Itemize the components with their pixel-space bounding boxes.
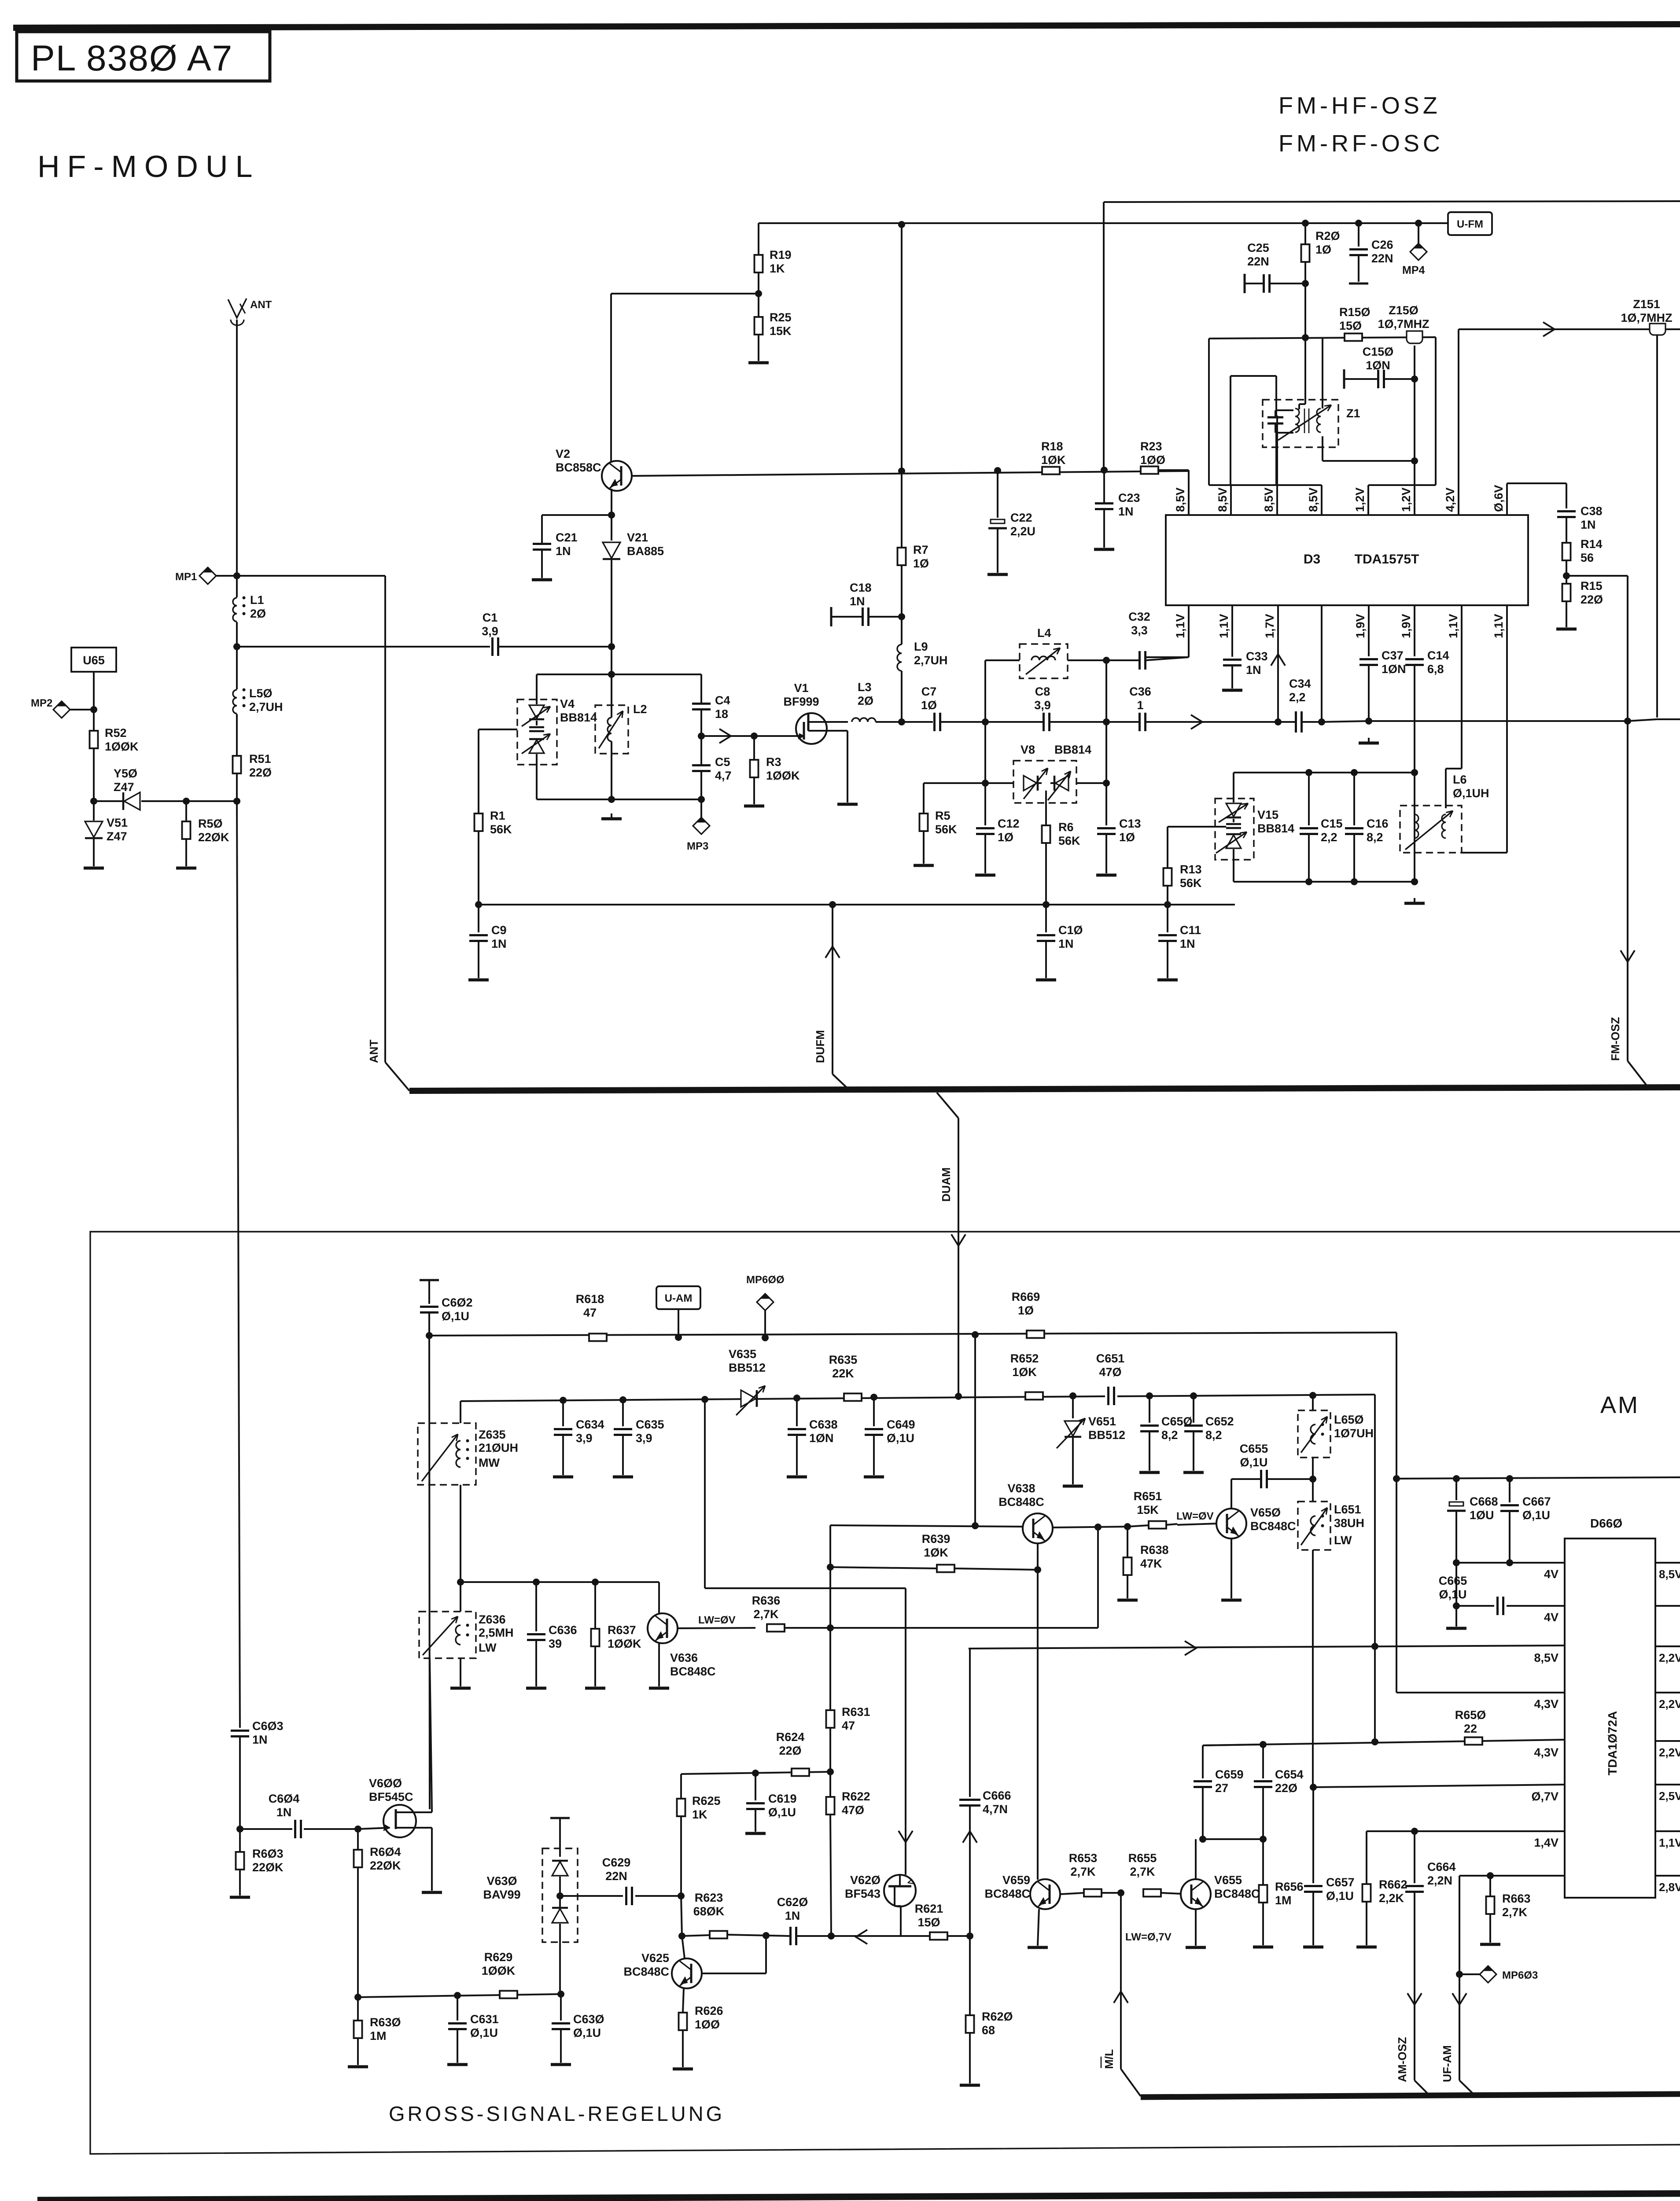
svg-text:C635: C635	[636, 1418, 664, 1431]
svg-text:1ØØ: 1ØØ	[1140, 453, 1165, 467]
0,7V pin line	[1313, 1785, 1565, 1787]
capacitor C635 3,9	[613, 1396, 664, 1477]
node MP600/rail	[762, 1334, 769, 1341]
capacitor C657 0,1U	[1303, 1787, 1355, 1947]
svg-text:R23: R23	[1140, 440, 1162, 453]
svg-text:1,1V: 1,1V	[1447, 614, 1460, 638]
wire V638 collector	[1037, 1543, 1039, 1570]
arrow to mixer gate	[719, 729, 731, 743]
node C602/rail	[426, 1332, 433, 1339]
ground C665	[1455, 1606, 1457, 1627]
svg-text:V15: V15	[1257, 808, 1278, 821]
svg-text:1,1V: 1,1V	[1659, 1836, 1680, 1849]
node Z1 secondary bottom	[1411, 457, 1418, 464]
svg-text:C4: C4	[715, 694, 730, 707]
svg-text:1,2V: 1,2V	[1400, 487, 1413, 512]
node C1/V21 column	[608, 643, 615, 650]
resistor R625 1K	[677, 1774, 721, 1896]
label FM-RF-OSC	[1278, 130, 1444, 157]
svg-text:FM-RF-OSC: FM-RF-OSC	[1278, 130, 1444, 157]
transistor V650 BC848C	[1177, 1479, 1296, 1538]
svg-text:U-AM: U-AM	[665, 1292, 693, 1304]
svg-text:68: 68	[982, 2024, 995, 2037]
svg-text:R631: R631	[842, 1705, 870, 1719]
svg-text:Ø,1U: Ø,1U	[887, 1432, 914, 1445]
wire up to L4 line	[984, 660, 986, 722]
node collector line / R7 column	[898, 467, 905, 475]
svg-text:2,7K: 2,7K	[1130, 1865, 1155, 1878]
wire oscillator box top edge	[1209, 337, 1436, 339]
svg-text:1Ø,7MHZ: 1Ø,7MHZ	[1378, 317, 1429, 331]
svg-text:R15: R15	[1581, 579, 1603, 593]
svg-text:1,1V: 1,1V	[1174, 614, 1187, 638]
AM supply rail	[429, 1332, 1396, 1336]
svg-text:15K: 15K	[770, 324, 792, 338]
svg-text:C11: C11	[1180, 924, 1201, 937]
svg-text:L651: L651	[1334, 1503, 1361, 1516]
svg-text:Z47: Z47	[114, 780, 134, 794]
svg-text:Ø,1U: Ø,1U	[1439, 1588, 1466, 1601]
wire V638 base line	[830, 1525, 1023, 1527]
wire ANT feed down to FM bus	[367, 576, 409, 1091]
svg-text:2,7K: 2,7K	[753, 1608, 779, 1621]
capacitor C655 0,1U	[1231, 1442, 1313, 1488]
svg-text:1N: 1N	[1058, 937, 1074, 950]
svg-text:8,5V: 8,5V	[1174, 487, 1187, 512]
svg-text:C665: C665	[1439, 1574, 1467, 1587]
svg-text:V655: V655	[1214, 1873, 1242, 1887]
svg-text:BC848C: BC848C	[623, 1965, 669, 1978]
svg-text:1ØK: 1ØK	[1041, 453, 1066, 467]
svg-text:1ØØK: 1ØØK	[482, 1964, 516, 1977]
svg-text:UF-AM: UF-AM	[1441, 2045, 1454, 2082]
node R669 drop / base	[972, 1522, 979, 1529]
svg-text:8,5V: 8,5V	[1534, 1651, 1558, 1664]
svg-text:Z47: Z47	[107, 830, 127, 843]
svg-text:Z1: Z1	[1346, 407, 1360, 420]
IC D660 TDA1072A	[1565, 1516, 1655, 1898]
svg-text:R637: R637	[608, 1623, 636, 1637]
svg-text:C619: C619	[768, 1792, 797, 1805]
svg-text:22N: 22N	[1371, 252, 1393, 265]
svg-text:R639: R639	[922, 1532, 951, 1546]
svg-text:C667: C667	[1522, 1495, 1551, 1508]
diode V21 BA885	[603, 515, 664, 647]
node C664	[1411, 1828, 1418, 1835]
node R651/R638	[1124, 1523, 1131, 1530]
svg-text:MP6ØØ: MP6ØØ	[746, 1274, 785, 1286]
node R653/R655/M-L	[1117, 1889, 1124, 1896]
svg-text:22: 22	[1464, 1722, 1477, 1735]
inductor L9 2,7UH	[897, 617, 948, 722]
svg-text:C25: C25	[1247, 241, 1269, 254]
wire V1 source to ground	[827, 730, 847, 732]
ground Z636	[460, 1658, 461, 1686]
wire R625 to collector node	[681, 1896, 682, 1936]
node V630 mid / C629	[556, 1892, 564, 1899]
transistor V2 BC858C	[556, 447, 636, 491]
svg-text:21ØUH: 21ØUH	[479, 1441, 518, 1454]
coil L651 38UH LW (dashed box)	[1298, 1502, 1364, 1550]
svg-text:R1: R1	[490, 809, 505, 822]
svg-text:BB512: BB512	[729, 1361, 766, 1374]
label FM-HF-OSZ	[1278, 92, 1441, 119]
ground V636 emitter	[658, 1643, 660, 1686]
inductor L4 (dashed box)	[985, 626, 1106, 678]
wire rail corner down right side	[1396, 1332, 1397, 1479]
svg-text:BB814: BB814	[1257, 822, 1294, 835]
node R1/C9	[475, 901, 482, 908]
svg-text:C1Ø: C1Ø	[1058, 924, 1083, 937]
svg-text:LW=ØV: LW=ØV	[1176, 1510, 1214, 1522]
svg-text:C654: C654	[1275, 1768, 1304, 1781]
svg-text:C12: C12	[998, 817, 1020, 830]
node V620 feed	[701, 1396, 708, 1403]
capacitor C38 1N	[1557, 504, 1603, 542]
filter Z151 10,7MHZ	[1621, 298, 1672, 335]
svg-text:V21: V21	[627, 531, 648, 544]
resistor R669 10	[1012, 1290, 1044, 1338]
svg-text:V62Ø: V62Ø	[850, 1873, 881, 1887]
node rail/R7 column	[898, 221, 905, 228]
svg-text:AM-OSZ: AM-OSZ	[1396, 2037, 1409, 2082]
svg-text:V2: V2	[556, 447, 570, 460]
svg-text:22Ø: 22Ø	[779, 1744, 801, 1757]
wire DUAM from bus	[937, 1093, 965, 1400]
svg-text:R15Ø: R15Ø	[1339, 305, 1371, 319]
svg-text:BB814: BB814	[1054, 743, 1091, 756]
svg-text:1ØN: 1ØN	[1366, 359, 1390, 372]
inductor L50 2,7UH	[233, 647, 283, 755]
node Y50/R50	[183, 798, 190, 805]
svg-text:15Ø: 15Ø	[917, 1916, 940, 1929]
wire V2 emitter down	[611, 489, 612, 515]
svg-text:MP1: MP1	[175, 571, 197, 583]
wire V1 drain to L3	[827, 721, 848, 723]
varactor V8 BB814 (dashed box)	[1013, 743, 1091, 803]
node R621/C666/R620	[966, 1932, 973, 1940]
node 1,7V pin line	[1275, 718, 1282, 725]
node collector/R639	[1034, 1566, 1041, 1573]
svg-text:22Ø: 22Ø	[1275, 1781, 1297, 1795]
svg-text:FM-HF-OSZ: FM-HF-OSZ	[1278, 92, 1441, 119]
svg-text:4,7: 4,7	[715, 769, 732, 782]
node V625 base riser	[763, 1932, 770, 1939]
svg-text:1Ø: 1Ø	[921, 699, 937, 712]
wire V15 box top rail	[1234, 772, 1415, 773]
resistor R655 2,7K	[1128, 1851, 1180, 1897]
svg-text:R7: R7	[913, 543, 928, 556]
svg-text:1N: 1N	[491, 937, 507, 950]
svg-text:V8: V8	[1021, 743, 1035, 756]
svg-text:22ØK: 22ØK	[198, 831, 229, 844]
svg-text:Ø,1U: Ø,1U	[1522, 1509, 1550, 1522]
resistor R13 56K	[1164, 827, 1202, 905]
svg-text:R669: R669	[1012, 1290, 1040, 1303]
svg-text:R622: R622	[842, 1790, 870, 1803]
svg-text:R5: R5	[935, 809, 951, 822]
label HF-MODUL	[37, 149, 260, 184]
svg-text:BF545C: BF545C	[369, 1790, 413, 1803]
svg-text:2,2: 2,2	[1321, 831, 1337, 844]
svg-text:MP3: MP3	[687, 840, 708, 852]
svg-text:C15: C15	[1321, 817, 1343, 830]
svg-text:1N: 1N	[1581, 518, 1596, 531]
capacitor C649 0,1U	[864, 1397, 915, 1477]
arrow mixer line	[1191, 715, 1202, 729]
node C18/L9	[898, 613, 905, 620]
svg-text:MP4: MP4	[1402, 264, 1425, 276]
svg-text:BF999: BF999	[783, 695, 819, 708]
2,8V pin line	[1459, 1875, 1565, 1877]
svg-text:DUAM: DUAM	[939, 1167, 953, 1202]
resistor R621 150	[915, 1902, 947, 1940]
svg-text:3,9: 3,9	[576, 1432, 593, 1445]
svg-text:47K: 47K	[1140, 1557, 1162, 1570]
resistor R629 100K	[482, 1951, 517, 1999]
svg-text:R656: R656	[1275, 1880, 1304, 1893]
svg-text:R635: R635	[829, 1353, 858, 1366]
resistor R638 47K	[1117, 1527, 1169, 1600]
node R669 rail / V638 base drop	[972, 1331, 979, 1338]
node R19/R25	[755, 290, 762, 297]
testpoint MP1	[175, 567, 237, 584]
capacitor C4 18	[692, 674, 730, 736]
svg-text:1N: 1N	[1180, 937, 1195, 950]
svg-text:V638: V638	[1007, 1482, 1035, 1495]
node C659/C654 line	[1203, 1745, 1263, 1745]
wire rail corner down to R650 line	[1374, 1395, 1376, 1742]
transistor V625 BC848C	[623, 1936, 702, 1988]
capacitor C5 4,7	[692, 736, 732, 799]
svg-text:V635: V635	[729, 1347, 756, 1361]
wire rail junction down to R7	[901, 225, 903, 548]
svg-text:C6Ø2: C6Ø2	[442, 1296, 473, 1309]
svg-text:1N: 1N	[785, 1909, 800, 1922]
resistor R618 47	[576, 1292, 607, 1341]
coil Z635 210UH MW (dashed box)	[418, 1401, 518, 1485]
resistor R5 56K	[914, 783, 957, 865]
ground V650 emitter	[1231, 1538, 1232, 1598]
node MP2/R52	[90, 706, 97, 713]
svg-text:22Ø: 22Ø	[249, 766, 272, 779]
capacitor C629 22N	[560, 1856, 681, 1905]
svg-text:1,7V: 1,7V	[1263, 614, 1276, 638]
node R622 bottom	[828, 1932, 835, 1940]
svg-text:3,9: 3,9	[1034, 699, 1051, 712]
capacitor C636 39	[526, 1582, 577, 1688]
svg-text:1,2V: 1,2V	[1353, 487, 1367, 512]
svg-text:R18: R18	[1041, 440, 1063, 453]
svg-text:C38: C38	[1581, 504, 1603, 518]
svg-text:27: 27	[1215, 1781, 1228, 1795]
resistor R604 220K	[354, 1829, 402, 1997]
svg-text:BC848C: BC848C	[1214, 1887, 1260, 1900]
node R604/R630	[354, 1994, 361, 2001]
svg-text:MW: MW	[479, 1456, 500, 1469]
node C7/L4/C12	[982, 718, 989, 725]
resistor R656 1M	[1253, 1839, 1304, 1947]
node R51 bottom	[233, 798, 240, 805]
node C649	[870, 1394, 877, 1401]
node DUAM/rail	[955, 1393, 962, 1400]
pin stub to main line	[1321, 605, 1323, 722]
svg-text:R25: R25	[770, 311, 792, 324]
svg-text:56: 56	[1581, 551, 1594, 564]
transistor V636 BC848C	[648, 1582, 716, 1678]
varactor V4 BB814 (dashed box)	[517, 697, 597, 765]
svg-text:22ØK: 22ØK	[252, 1861, 284, 1874]
svg-text:47: 47	[583, 1306, 597, 1319]
svg-text:PL 838Ø A7: PL 838Ø A7	[31, 38, 233, 78]
resistor R3 100K	[744, 736, 800, 806]
svg-text:1ØØ: 1ØØ	[695, 2018, 720, 2031]
wire oscillator box left edge	[1208, 339, 1210, 485]
svg-text:C5: C5	[715, 755, 730, 769]
diode pair V630 BAV99 (dashed box)	[483, 1818, 578, 1994]
svg-text:68ØK: 68ØK	[693, 1905, 725, 1918]
resistor R15 220	[1556, 576, 1603, 629]
svg-text:C34: C34	[1289, 677, 1311, 690]
wire L2 to rails	[611, 674, 612, 718]
resistor R635 22K	[829, 1353, 862, 1401]
resistor R639 10K	[830, 1532, 1038, 1572]
wire tank top rail	[537, 674, 701, 675]
supply rail to C668/C667	[1396, 1477, 1680, 1479]
svg-text:4,7N: 4,7N	[983, 1803, 1008, 1816]
svg-text:U-FM: U-FM	[1457, 218, 1483, 230]
svg-text:2,7K: 2,7K	[1070, 1865, 1096, 1878]
svg-text:1,1V: 1,1V	[1217, 614, 1231, 638]
resistor R622 470	[826, 1772, 870, 1936]
svg-text:V1: V1	[794, 681, 808, 695]
node DUFM riser	[829, 901, 836, 908]
svg-text:BC848C: BC848C	[1250, 1520, 1296, 1533]
capacitor C652 8,2	[1183, 1396, 1234, 1472]
svg-text:C7: C7	[921, 685, 937, 698]
svg-text:R51: R51	[249, 752, 271, 766]
testpoint MP600	[746, 1274, 785, 1338]
svg-text:FM-OSZ: FM-OSZ	[1609, 1017, 1622, 1061]
resistor R652 10K	[1010, 1352, 1043, 1400]
resistor R603 220K	[230, 1829, 284, 1897]
IC D3 TDA1575T	[1166, 515, 1528, 605]
wire FM-OSZ to bus	[1609, 721, 1649, 1088]
svg-text:BA885: BA885	[627, 545, 664, 558]
svg-text:Ø,1U: Ø,1U	[768, 1806, 796, 1819]
capacitor C11 1N	[1157, 905, 1201, 980]
svg-text:2Ø: 2Ø	[858, 694, 873, 707]
svg-text:R636: R636	[752, 1594, 781, 1607]
node C630/V630	[557, 1991, 564, 1998]
node Z1 top rail	[1302, 334, 1309, 341]
svg-text:L65Ø: L65Ø	[1334, 1413, 1364, 1426]
wire oscillator box bottom edge	[1209, 484, 1322, 486]
wire Z635 to LW rail	[460, 1485, 461, 1582]
node R639 tap	[827, 1564, 834, 1571]
R624 line	[681, 1772, 830, 1774]
resistor R6 56K	[1042, 791, 1081, 905]
node C37 ground stub	[1365, 718, 1372, 725]
svg-text:V625: V625	[641, 1951, 669, 1965]
svg-text:1K: 1K	[692, 1808, 707, 1821]
capacitor C10 1N	[1036, 905, 1083, 980]
resistor R662 2,2K	[1356, 1831, 1407, 1947]
svg-text:U65: U65	[83, 654, 105, 667]
varactor V651 BB512	[1057, 1396, 1125, 1486]
capacitor C150 10N	[1344, 345, 1415, 389]
node C652	[1190, 1392, 1197, 1399]
node R3/gate	[751, 732, 758, 740]
wire tank bottom rail	[537, 799, 701, 800]
node C655/L650/L651	[1312, 1458, 1314, 1479]
svg-text:47: 47	[842, 1719, 855, 1732]
capacitor C650 8,2	[1139, 1396, 1193, 1472]
svg-text:BF543: BF543	[845, 1887, 881, 1900]
node C650	[1146, 1392, 1153, 1399]
svg-text:V4: V4	[560, 697, 575, 710]
svg-text:1Ø: 1Ø	[913, 557, 929, 570]
arrow IF out	[1543, 322, 1555, 336]
ground V15 box	[1411, 878, 1418, 885]
FM module bus (thick)	[409, 1087, 1680, 1091]
node C629/R625	[678, 1892, 685, 1899]
box U-FM	[1448, 212, 1492, 235]
wire 4,2V pin to Z151 line	[1458, 329, 1459, 515]
AM bus (thick)	[1141, 2094, 1680, 2097]
svg-text:BC848C: BC848C	[984, 1887, 1030, 1900]
svg-text:22N: 22N	[605, 1870, 627, 1883]
svg-text:C13: C13	[1119, 817, 1141, 830]
node V8/C13	[1103, 780, 1110, 787]
svg-text:BC858C: BC858C	[556, 461, 601, 474]
wire R20 node down to Z1	[1304, 283, 1306, 338]
svg-text:2,5MH: 2,5MH	[479, 1626, 514, 1639]
svg-text:39: 39	[549, 1637, 562, 1650]
svg-text:1Ø: 1Ø	[1119, 831, 1135, 844]
wire L651 column down	[1312, 1479, 1314, 1502]
svg-text:R63Ø: R63Ø	[370, 2016, 401, 2029]
node L650	[1309, 1392, 1316, 1399]
node C12/V8	[982, 780, 989, 787]
node C4/C5	[698, 732, 705, 740]
wire 0,6V pin loop to C38	[1506, 483, 1508, 515]
svg-text:1ØN: 1ØN	[809, 1432, 834, 1445]
svg-text:2,5V: 2,5V	[1659, 1789, 1680, 1803]
svg-text:V651: V651	[1088, 1415, 1116, 1428]
svg-text:8,5V: 8,5V	[1659, 1568, 1680, 1581]
svg-text:1ØØK: 1ØØK	[105, 740, 139, 753]
pin 1,9V to C14	[1414, 605, 1415, 656]
8,5V line with arrow	[969, 1641, 1565, 1655]
svg-text:1N: 1N	[252, 1733, 268, 1746]
svg-text:1N: 1N	[276, 1806, 292, 1819]
resistor R7 10	[898, 543, 929, 617]
svg-text:R5Ø: R5Ø	[198, 817, 223, 830]
svg-text:6,8: 6,8	[1427, 663, 1444, 676]
resistor R19 1K	[755, 223, 792, 294]
svg-text:C63Ø: C63Ø	[573, 2013, 604, 2026]
inductor L1 20	[233, 576, 266, 647]
wire C602 column down through Z635	[429, 1336, 430, 1809]
svg-text:R624: R624	[776, 1730, 805, 1744]
svg-text:3,9: 3,9	[482, 625, 498, 638]
svg-text:1Ø: 1Ø	[1315, 243, 1331, 256]
svg-text:Ø,1U: Ø,1U	[1326, 1889, 1354, 1903]
testpoint MP4	[1402, 223, 1427, 276]
svg-text:R653: R653	[1069, 1851, 1098, 1865]
svg-text:1N: 1N	[1118, 505, 1134, 518]
